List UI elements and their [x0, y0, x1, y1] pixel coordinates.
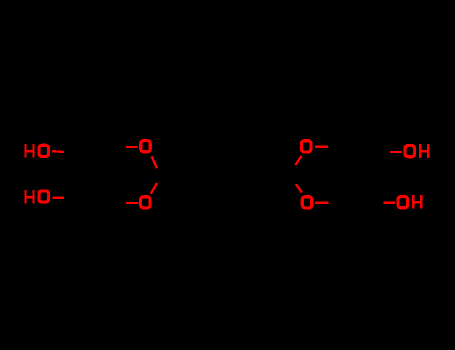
- atom O3 (left ring bottom O): [141, 197, 151, 208]
- bond C2(right)-C4'(benzene) (black, invisible): [253, 174, 292, 176]
- bond O3'-C2' red half (diagonal): [296, 184, 302, 193]
- bond CH2-OH (bottom-right) red half: [384, 202, 395, 204]
- bond C2(left)-C1'(benzene) (black, invisible): [162, 174, 201, 176]
- benzene ring (carbon skeleton, black on black - invisible): [201, 153, 253, 198]
- bond HO-CH2 (top-left) red half: [52, 150, 64, 153]
- label HO (bottom-left): H glyph: [25, 190, 35, 203]
- bond O1'-CH2 red half (to right): [315, 146, 328, 148]
- label HO (bottom-left): O glyph: [39, 191, 49, 202]
- label OH (bottom-right): O glyph: [398, 197, 408, 208]
- bond O1'-C2' red half (diagonal): [295, 156, 301, 165]
- label OH (bottom-right): H glyph: [412, 195, 422, 209]
- label OH (top-right): O glyph: [405, 146, 415, 157]
- bond O3-C2 red half (diagonal): [151, 183, 157, 194]
- label HO (top-left): O glyph: [39, 145, 49, 156]
- bond CH2-OH (top-right) red half: [390, 151, 402, 153]
- atom O1 (left ring top O): [141, 141, 151, 152]
- atom O3' (right ring bottom O): [302, 197, 312, 208]
- atom O1' (right ring top O): [301, 141, 311, 152]
- bond CH2(top)-O1 red half: [126, 146, 138, 148]
- label OH (top-right): H glyph: [419, 144, 429, 158]
- bond O3'-CH2 red half (to right): [315, 202, 328, 204]
- bond O1-C2 red half (diagonal): [152, 156, 157, 168]
- bond HO-CH2 (bottom-left) red half: [53, 196, 65, 198]
- bond CH2(bottom)-O3 red half: [126, 202, 138, 204]
- label HO (top-left): H glyph: [25, 144, 35, 157]
